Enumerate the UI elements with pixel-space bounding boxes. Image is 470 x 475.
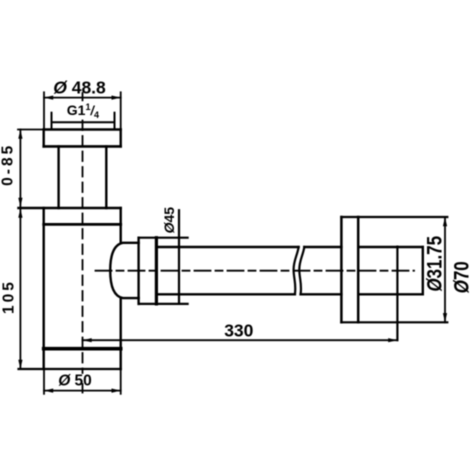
- svg-text:330: 330: [224, 321, 253, 341]
- svg-text:Ø70: Ø70: [451, 261, 470, 293]
- svg-text:Ø 50: Ø 50: [58, 373, 92, 390]
- svg-text:0-85: 0-85: [0, 143, 17, 186]
- svg-text:105: 105: [1, 279, 18, 314]
- svg-text:Ø31.75: Ø31.75: [424, 236, 447, 292]
- svg-text:Ø45: Ø45: [161, 207, 177, 234]
- svg-text:Ø 48.8: Ø 48.8: [53, 77, 106, 97]
